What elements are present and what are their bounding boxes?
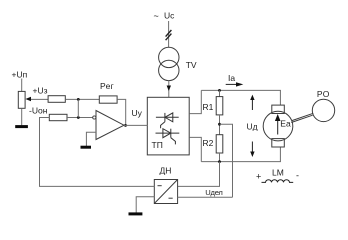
ground (DN) [129,212,143,215]
breaker slashes on supply wire [166,30,172,37]
svg-text:+: + [256,172,261,182]
svg-text:РО: РО [317,89,330,99]
svg-text:Iа: Iа [228,73,235,83]
wire from ~Uc to transformer [168,21,170,47]
svg-text:Eа: Eа [280,119,291,129]
svg-text:Uу: Uу [132,108,143,118]
resistor Rос [49,114,67,120]
wire feedback -Uон: DN upper-left to Rос [40,118,155,187]
wire transformer to TP with arrow [168,81,170,98]
ground (op-amp) [81,146,92,149]
svg-text:Uс: Uс [164,11,175,21]
wire TP bottom-right to minus rail [189,137,201,161]
motor M armature [263,111,293,141]
svg-text:+Uз: +Uз [33,86,48,96]
converter block TP [147,97,189,155]
svg-text:R2: R2 [203,138,214,148]
svg-text:ТV: ТV [186,60,197,70]
motor M leads [279,90,281,105]
svg-text:R1: R1 [203,102,214,112]
svg-text:-: - [296,171,299,181]
brush bottom [272,139,285,147]
junction output [124,124,127,127]
svg-text:-Uон: -Uон [29,105,48,115]
resistor R1 [219,90,221,96]
brush top [272,105,285,113]
wire summing vertical [77,99,79,117]
transformer TV [159,47,179,67]
wire plus rail [201,89,281,91]
ground (pot) [15,125,28,128]
resistor R2 [216,135,223,153]
svg-text:Рег: Рег [100,81,114,91]
svg-text:ДН: ДН [160,166,172,176]
wire Uдел: DN lower-right [178,196,233,198]
svg-text:~: ~ [154,11,159,21]
junction summing bottom [77,116,80,119]
load PO [312,99,334,121]
svg-text:+Uп: +Uп [12,70,28,80]
op-amp U1 [96,111,124,140]
svg-text:Uдел: Uдел [205,188,222,197]
wire feedback to output [117,99,126,125]
wire minus rail [201,161,281,163]
wire non-inverting input to ground [86,132,96,146]
svg-text:Uд: Uд [247,122,258,132]
resistor Rз [48,96,65,103]
thyristor VS2 (points right) [156,132,180,134]
svg-text:LМ: LМ [272,168,284,178]
junction R2 bottom [218,160,221,163]
wire R1 to R2 [219,115,221,135]
svg-text:ТП: ТП [152,140,163,150]
wire Uy: op-amp output to TP [124,124,147,126]
junction R1 top [218,89,221,92]
thyristor VS1 (points left) [156,116,179,118]
label Ea with arrow [277,121,279,135]
junction summing top [77,98,80,101]
junction divider tap [218,123,221,126]
wire TP top-right to plus rail [189,90,201,113]
shaft motor to PO [292,113,313,120]
wire Rз to summing node [65,98,99,100]
wire R2 bottom to DN upper input [178,162,220,187]
wire DN lower-left to ground [136,197,154,213]
wiper arrow wire [28,98,49,100]
wire tap to Uдел vertical [220,124,233,197]
wire Rос to summing node [67,117,93,119]
